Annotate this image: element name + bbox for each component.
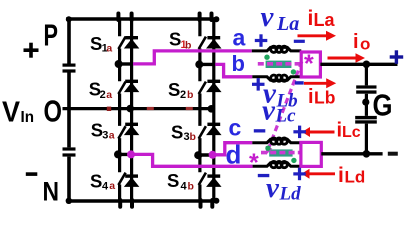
node load midpoint (362, 99, 369, 106)
wire output top (320, 63, 397, 66)
polarity + input (24, 43, 39, 58)
wire leg b diode branch (212, 19, 215, 201)
svg-text:b: b (188, 181, 194, 193)
node magenta junction S3a-S4a (127, 150, 135, 158)
magnetic core bottom (coupled Lc-Ld) (269, 149, 292, 156)
polarity - La (294, 40, 305, 43)
label O (44, 94, 63, 129)
svg-text:b: b (232, 51, 245, 76)
svg-text:a: a (106, 43, 112, 55)
svg-text:Lb: Lb (314, 88, 335, 108)
magnetic core top (coupled La-Lb) (266, 61, 292, 68)
polarity + Lc (293, 126, 306, 139)
junction box top (magenta) (301, 52, 320, 77)
wire phase a (magenta) (133, 51, 252, 64)
svg-text:S: S (168, 79, 180, 100)
svg-text:i: i (353, 31, 359, 53)
svg-text:N: N (43, 177, 60, 207)
svg-text:S: S (169, 29, 181, 50)
label S3a (91, 119, 115, 141)
wire phase c (magenta) (213, 143, 253, 155)
polarity + output (390, 50, 404, 64)
wire top DC rail P (66, 17, 216, 20)
label S3b (171, 122, 196, 143)
svg-text:Lc: Lc (275, 106, 297, 127)
svg-text:b: b (187, 89, 193, 101)
svg-text:v: v (261, 1, 275, 33)
wire phase d (magenta) (131, 154, 253, 166)
node label d (226, 139, 242, 169)
node label b (232, 51, 245, 76)
label i_La (308, 7, 336, 30)
node output top junction (363, 61, 371, 69)
svg-text:4: 4 (102, 181, 109, 193)
label v_Ld (266, 172, 301, 205)
wire output bottom (321, 152, 382, 155)
inductor Lb (252, 75, 301, 81)
svg-text:i: i (338, 164, 344, 187)
svg-text:v: v (262, 95, 276, 127)
wire DC bus vertical (67, 19, 71, 201)
svg-text:S: S (90, 33, 102, 54)
node label a (233, 25, 246, 51)
svg-text:2: 2 (180, 89, 186, 101)
label i_Lc (337, 120, 361, 142)
inductor La (252, 46, 301, 52)
capacitor bus upper (63, 64, 76, 73)
polarity dot Lc (265, 146, 270, 151)
wire midpoint bar S3b-S4b (194, 151, 214, 159)
capacitor bus lower (63, 147, 76, 156)
svg-text:*: * (304, 50, 314, 78)
node N corner (66, 198, 72, 204)
arrow i_Lb (304, 78, 336, 88)
node top rail right end (213, 16, 219, 22)
label N (43, 177, 60, 207)
node label c (229, 115, 242, 141)
wire load vertical (365, 64, 368, 154)
svg-text:a: a (109, 130, 115, 142)
polarity + Lb (252, 78, 265, 91)
label G (373, 88, 393, 123)
star mark top (304, 50, 314, 78)
wire bottom DC rail N (66, 199, 216, 202)
polarity - output (388, 152, 398, 156)
arrow i_La (298, 31, 337, 41)
svg-text:2: 2 (100, 89, 106, 101)
transistor S1a (118, 36, 138, 49)
svg-text:i: i (308, 86, 314, 108)
polarity - Lc (254, 129, 265, 132)
transistor S3a (118, 123, 138, 139)
label i_Ld (338, 164, 365, 187)
core dashed centre line bottom (261, 151, 300, 155)
wire phase b (magenta) (215, 64, 252, 76)
node magenta junction S3b-S4b (209, 151, 217, 159)
star mark bottom (249, 149, 259, 177)
inductor Ld (253, 162, 301, 168)
svg-text:P: P (44, 18, 59, 53)
node bottom rail right end (213, 198, 219, 204)
wire leg a diode branch (130, 19, 133, 201)
svg-text:Ld: Ld (345, 168, 366, 187)
transistor S3b (199, 123, 221, 139)
core dashed centre line top (258, 62, 301, 66)
svg-text:*: * (249, 149, 259, 177)
label v_La (261, 1, 300, 35)
wire midpoint bar S3a-S4a (114, 150, 133, 158)
node output bottom junction (363, 150, 371, 158)
svg-text:In: In (21, 109, 35, 126)
label i_Lb (308, 86, 335, 108)
node O rail at leg a (126, 105, 134, 113)
label v_Lc (262, 95, 296, 127)
svg-text:3: 3 (102, 130, 108, 142)
label v_Lb (263, 78, 298, 112)
transistor S4a (118, 173, 138, 187)
polarity - Ld (258, 174, 270, 177)
wire midpoint bar S1a-S2a (115, 60, 134, 68)
polarity dot Ld (291, 158, 296, 163)
svg-text:o: o (360, 35, 370, 54)
svg-text:S: S (91, 119, 103, 140)
dashed coupling diagonal (266, 61, 302, 154)
transistor S2b (199, 80, 221, 94)
red tick marks on middle rail (107, 107, 193, 111)
label S1a (90, 33, 112, 55)
node P corner (66, 16, 72, 22)
svg-text:a: a (233, 25, 246, 51)
node stubs top rail (118, 14, 211, 21)
wire middle rail O (63, 107, 213, 110)
svg-text:V: V (2, 97, 21, 129)
junction box bottom (magenta) (301, 142, 321, 166)
node O rail at leg b (208, 105, 216, 113)
capacitor load upper (356, 85, 376, 93)
polarity + Ld (293, 168, 306, 181)
svg-text:a: a (109, 180, 115, 192)
label S2b (168, 79, 193, 101)
polarity + La (255, 34, 267, 47)
svg-text:i: i (308, 7, 314, 30)
wire midpoint bar S1b-S2b (195, 60, 215, 68)
arrow i_Lc (302, 127, 335, 137)
arrow i_o (328, 53, 366, 63)
svg-text:La: La (314, 10, 336, 30)
polarity - input (26, 172, 38, 176)
node stubs bottom rail (120, 200, 212, 207)
svg-text:c: c (229, 115, 242, 141)
svg-text:O: O (44, 94, 63, 129)
label S4b (167, 170, 194, 193)
polarity - Lb (295, 81, 304, 84)
wire leg b switch branch (198, 19, 201, 201)
label S4a (90, 171, 115, 193)
wire leg a switch branch (118, 19, 121, 201)
svg-text:La: La (276, 13, 299, 35)
svg-text:b: b (190, 131, 196, 143)
svg-text:Ld: Ld (279, 184, 302, 205)
svg-text:G: G (373, 88, 393, 123)
arrow i_Ld (302, 169, 336, 179)
label S1b (169, 29, 191, 52)
label S2a (89, 79, 112, 102)
transistor S1b (199, 36, 221, 49)
svg-text:S: S (167, 170, 179, 191)
svg-text:b: b (185, 40, 191, 52)
label V_in (2, 97, 34, 129)
label P (44, 18, 59, 53)
svg-text:a: a (106, 89, 112, 101)
svg-text:4: 4 (181, 181, 188, 193)
svg-text:d: d (226, 139, 242, 169)
transistor S2a (118, 80, 138, 94)
polarity dot La (264, 55, 269, 60)
transistor S4b (199, 173, 221, 187)
label i_o (353, 31, 370, 54)
capacitor load lower (355, 116, 377, 124)
svg-text:Lc: Lc (342, 124, 361, 141)
polarity dot Lb (291, 69, 296, 74)
inductor Lc (252, 138, 301, 144)
svg-text:S: S (171, 122, 183, 143)
svg-text:S: S (90, 171, 102, 192)
